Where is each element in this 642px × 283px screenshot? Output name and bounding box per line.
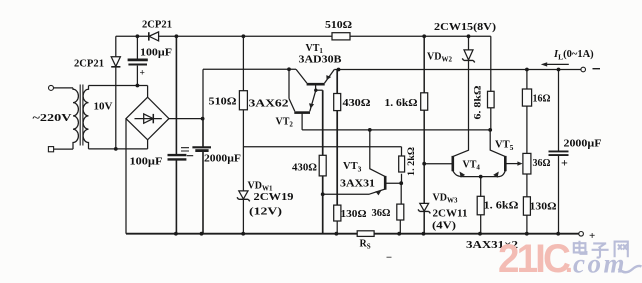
wire positive mid rail right segment to output <box>334 69 581 71</box>
resistor 1.2k ohm <box>399 147 405 204</box>
label VT2 <box>276 117 294 129</box>
svg-text:1. 2kΩ: 1. 2kΩ <box>407 147 417 176</box>
svg-text:430Ω: 430Ω <box>292 163 317 174</box>
capacitor C2 100uF (filter) <box>168 36 187 233</box>
svg-text:2CW15(8V): 2CW15(8V) <box>434 22 497 33</box>
bridge rectifier <box>126 97 169 140</box>
wire top rail <box>116 35 491 37</box>
label 3AX31 <box>340 179 375 190</box>
label 16 ohm <box>533 94 551 105</box>
label 2CW11 <box>433 209 468 220</box>
label 100uF (C1) <box>140 48 172 59</box>
label VDw3 <box>433 193 458 205</box>
resistor RS current sense on ground rail <box>357 231 374 237</box>
label 36 ohm (second) <box>372 208 391 219</box>
resistor 1.6k ohm (first) with VDw3 column <box>421 36 428 233</box>
label VT5 <box>495 140 514 153</box>
current arrow IL <box>541 62 569 66</box>
label VT3 <box>343 161 362 174</box>
wire mid horizontal y147 <box>243 146 401 148</box>
terminal AC input top <box>49 85 74 90</box>
label 510 ohm (top resistor) <box>325 20 352 31</box>
svg-text:2CW19: 2CW19 <box>254 192 294 203</box>
resistor 36 ohm (second) <box>397 204 404 234</box>
svg-text:6. 8kΩ: 6. 8kΩ <box>474 85 484 119</box>
wire VT1 base to 430 ohm column <box>316 89 323 91</box>
watermark 21IC <box>498 237 573 281</box>
zener diode VDw3 2CW11 <box>418 203 430 213</box>
svg-text:VT4: VT4 <box>463 160 481 172</box>
terminal AC input bottom <box>48 147 73 152</box>
svg-text:2CP21: 2CP21 <box>74 59 104 70</box>
resistor 430 ohm (first, upper) <box>334 70 341 206</box>
svg-text:2CW11: 2CW11 <box>433 209 468 220</box>
transistor VT1 3AD30B <box>296 69 334 90</box>
diode 2CP21 horizontal (top) <box>149 32 159 41</box>
label 510 ohm (vertical resistor) <box>209 97 237 108</box>
stray mark <box>387 256 392 258</box>
label 2CP21 (left diode) <box>74 59 104 70</box>
label 2CW19 <box>254 192 294 203</box>
svg-text:+: + <box>561 156 568 170</box>
polarity dashes near C2/C3 <box>181 148 193 156</box>
wire bridge minus down left column <box>125 119 127 234</box>
wire secondary bottom to bridge bottom vertex <box>89 140 148 149</box>
wire bridge plus output <box>169 118 203 120</box>
resistor 510 ohm horizontal (top rail) <box>332 33 350 40</box>
resistor 130 ohm (second) <box>523 197 530 234</box>
terminal output plus (bottom) <box>579 230 595 242</box>
label 1.6k ohm (second) <box>484 201 519 212</box>
svg-text:1. 6kΩ: 1. 6kΩ <box>385 98 418 109</box>
label 2000uF (C4) <box>564 139 602 150</box>
label 36 ohm (third) <box>533 158 551 169</box>
label VT4 <box>463 160 481 172</box>
svg-text:3AX62: 3AX62 <box>249 99 289 110</box>
label 10V <box>94 102 114 113</box>
capacitor C1 100uF (top left) <box>128 36 148 85</box>
label 100uF (C2) <box>130 157 163 168</box>
svg-text:VT2: VT2 <box>276 117 294 129</box>
svg-text:VT5: VT5 <box>495 140 514 153</box>
svg-text:130Ω: 130Ω <box>530 202 557 213</box>
svg-text:3AX31: 3AX31 <box>340 179 375 190</box>
resistor 16 ohm <box>522 70 531 154</box>
svg-text:510Ω: 510Ω <box>209 97 237 108</box>
svg-text:+: + <box>589 230 595 242</box>
svg-text:1. 6kΩ: 1. 6kΩ <box>484 201 519 212</box>
svg-text:VDW2: VDW2 <box>427 52 452 64</box>
diode 2CP21 vertical (left) <box>111 36 120 149</box>
svg-text:36Ω: 36Ω <box>372 208 391 219</box>
capacitor C4 2000uF output <box>549 70 569 234</box>
transistor VT2 3AX62 <box>289 69 316 130</box>
resistor 510 ohm vertical with zener column <box>239 36 247 233</box>
label IL(0~1A) <box>553 49 594 62</box>
svg-text:16Ω: 16Ω <box>533 94 551 105</box>
label 1.2k ohm (rotated) <box>407 147 417 176</box>
svg-text:.: . <box>565 247 573 278</box>
label 6.8k ohm (rotated) <box>474 85 484 119</box>
wire corner column from mid rail to bridge output <box>202 69 204 118</box>
svg-text:VDW1: VDW1 <box>248 181 273 193</box>
svg-text:VDW3: VDW3 <box>433 193 458 205</box>
terminal output minus (top) <box>581 67 600 72</box>
label 2000uF (C3) <box>204 153 241 164</box>
transistor VT3 3AX31 <box>323 130 402 196</box>
capacitor C3 2000uF (main filter) <box>192 119 211 234</box>
svg-text:21IC: 21IC <box>498 237 570 281</box>
label 3AX31x2 <box>466 240 518 251</box>
label 2CW15(8V) <box>434 22 497 33</box>
wire positive mid rail left segment <box>203 68 296 70</box>
svg-text:130Ω: 130Ω <box>341 209 367 220</box>
zener diode VDw2 2CW15 column <box>453 36 475 156</box>
svg-text:(12V): (12V) <box>249 207 282 218</box>
label 130 ohm (first) <box>341 209 367 220</box>
label 3AX62 <box>249 99 289 110</box>
svg-text:3AD30B: 3AD30B <box>299 55 342 66</box>
label ~220V <box>33 113 73 124</box>
svg-text:510Ω: 510Ω <box>325 20 352 31</box>
resistor 430 ohm (second) on VT1 base column <box>319 90 326 234</box>
svg-text:VT3: VT3 <box>343 161 362 174</box>
svg-text:100µF: 100µF <box>140 48 172 59</box>
svg-text:RS: RS <box>360 239 371 251</box>
svg-text:100µF: 100µF <box>130 157 163 168</box>
label 430 ohm (first) <box>343 98 371 109</box>
label VDw1 <box>248 181 273 193</box>
svg-text:VT1: VT1 <box>306 43 324 55</box>
label VT1 <box>306 43 324 55</box>
label 1.6k ohm (first) <box>385 98 418 109</box>
label VDw2 <box>427 52 452 64</box>
watermark chinese dianziwang <box>574 241 628 258</box>
potentiometer 36 ohm (third) <box>523 153 531 196</box>
transformer T secondary winding <box>83 86 88 149</box>
svg-text:~220V: ~220V <box>33 113 73 124</box>
transistor VT5 <box>490 130 522 171</box>
label RS <box>360 239 371 251</box>
resistor 6.8k ohm column <box>488 36 495 130</box>
resistor 1.6k ohm (second) emitter resistor <box>477 177 484 234</box>
label (12V) <box>249 207 282 218</box>
wire ground rail <box>126 233 579 235</box>
label 3AD30B <box>299 55 342 66</box>
svg-text:2CP21: 2CP21 <box>142 19 172 30</box>
svg-text:(4V): (4V) <box>432 221 456 232</box>
label (4V) <box>432 221 456 232</box>
wire secondary top to bridge <box>89 86 148 98</box>
label 2CP21 (top diode) <box>142 19 172 30</box>
label 130 ohm (second) <box>530 202 557 213</box>
svg-text:10V: 10V <box>94 102 114 113</box>
transformer T primary winding <box>73 88 78 149</box>
watermark com <box>573 249 642 279</box>
wire VT2 base rail y130 <box>302 129 490 131</box>
svg-text:2000µF: 2000µF <box>564 139 602 150</box>
svg-text:2000µF: 2000µF <box>204 153 241 164</box>
resistor 130 ohm (first, lower) <box>334 205 341 234</box>
label 430 ohm (second) <box>292 163 317 174</box>
transistor VT4 <box>424 156 505 178</box>
svg-text:430Ω: 430Ω <box>343 98 371 109</box>
transformer T core <box>80 85 83 146</box>
svg-text:com: com <box>573 249 627 279</box>
svg-text:36Ω: 36Ω <box>533 158 551 169</box>
zener diode VDw1 2CW19 <box>237 191 250 201</box>
svg-text:IL(0~1A): IL(0~1A) <box>553 49 594 62</box>
svg-text:+: + <box>140 68 145 78</box>
